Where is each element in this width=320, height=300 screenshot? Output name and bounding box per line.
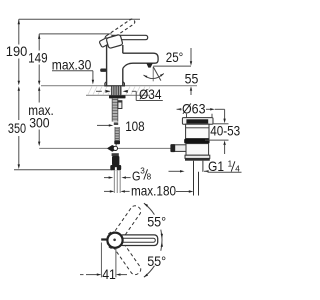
svg-text:190: 190 [6,44,28,59]
svg-text:max.30: max.30 [52,58,92,73]
svg-text:1: 1 [228,159,233,168]
svg-text:108: 108 [125,119,145,134]
svg-text:3: 3 [140,166,145,175]
svg-text:300: 300 [29,116,50,131]
svg-text:Ø63: Ø63 [182,102,206,117]
svg-text:Ø34: Ø34 [139,87,162,102]
svg-text:55: 55 [185,72,199,87]
svg-text:40-53: 40-53 [210,124,240,139]
svg-text:149: 149 [28,51,47,66]
svg-text:55°: 55° [147,254,166,269]
svg-text:8: 8 [147,173,152,182]
svg-text:G1: G1 [208,159,224,174]
svg-text:55°: 55° [147,214,166,229]
svg-text:25°: 25° [166,50,184,65]
svg-text:41: 41 [102,267,116,282]
svg-text:max.180: max.180 [131,184,176,199]
svg-text:G: G [132,169,141,184]
svg-text:350: 350 [8,121,27,136]
